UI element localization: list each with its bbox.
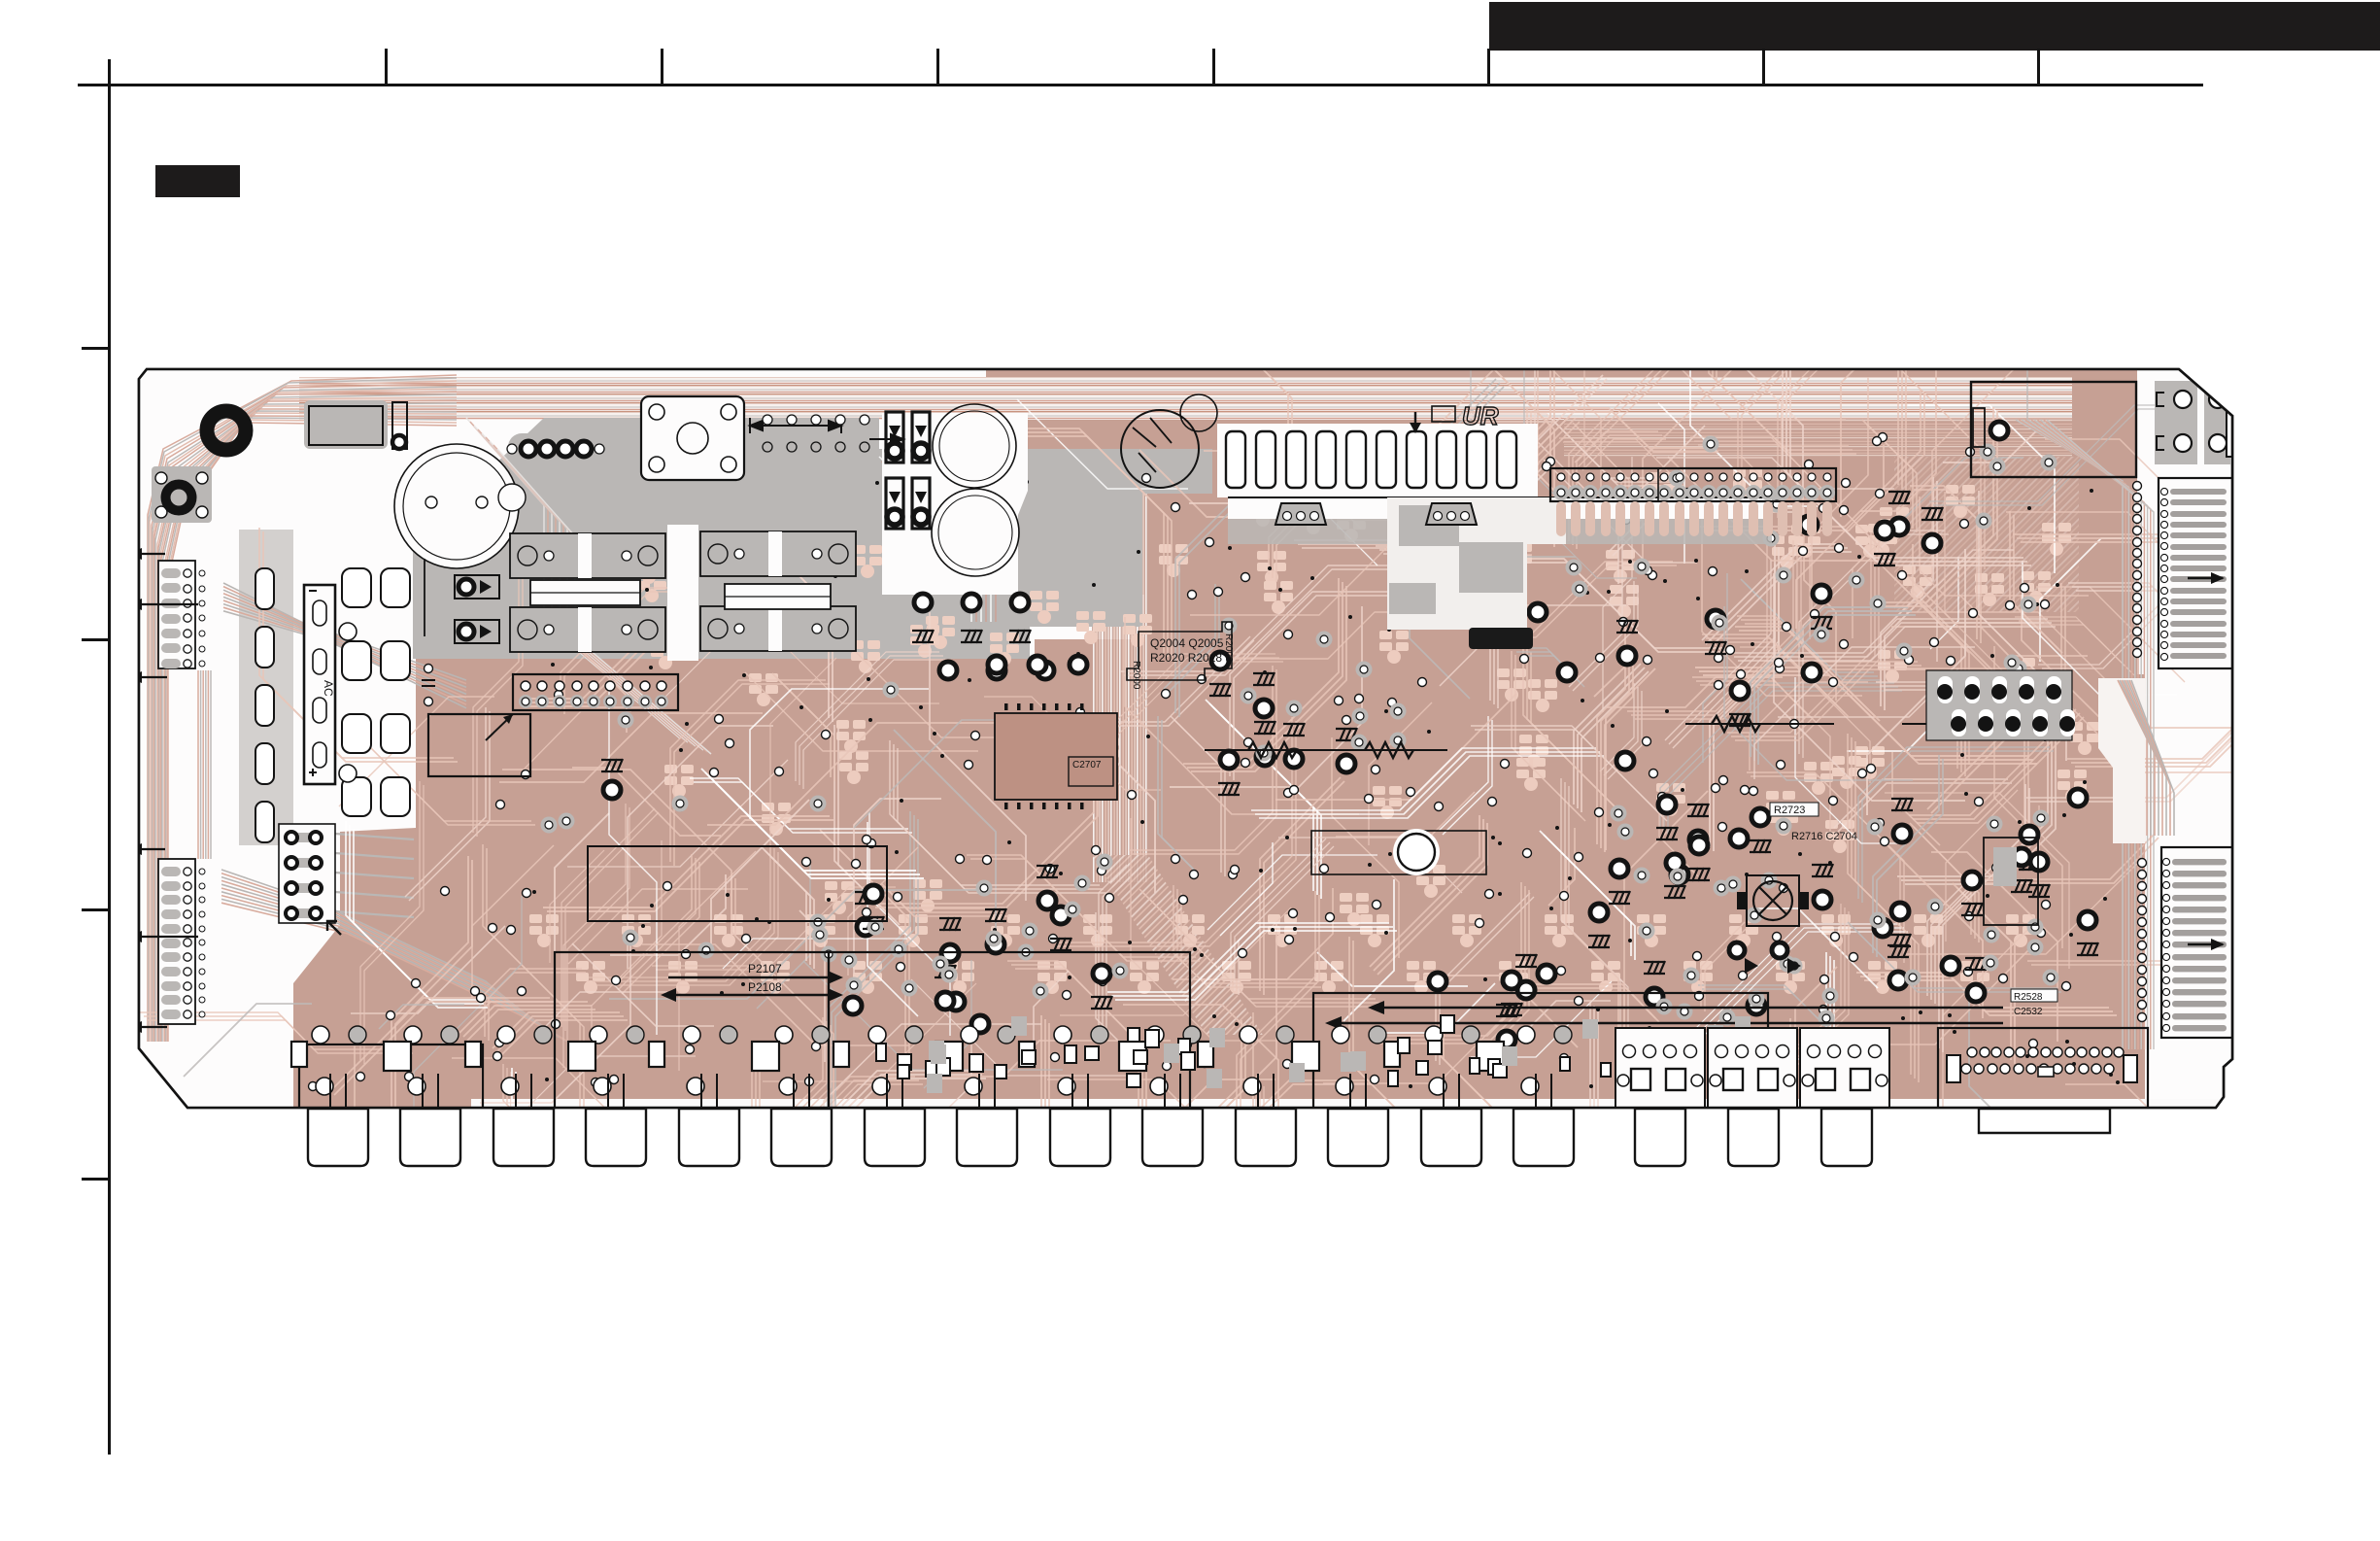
- card edge connector CN9 upper: [2159, 478, 2236, 668]
- inter-connector bundle: [198, 670, 211, 859]
- shield comb frame: [1217, 424, 1538, 497]
- top trace band: [299, 377, 2072, 420]
- relay gap white channel: [667, 525, 698, 661]
- component pad clusters: [541, 422, 2099, 1048]
- board outline: [139, 369, 2232, 1108]
- svg-text:R2723: R2723: [1774, 805, 1805, 816]
- RCA jack tabs: [308, 1109, 2110, 1166]
- inductor frame L1: [530, 580, 640, 605]
- connector group frame B1: [299, 1044, 483, 1113]
- gray slot column left: [239, 530, 293, 845]
- card edge connector CN10 lower: [2161, 847, 2236, 1038]
- title block bar top right: [1489, 2, 2380, 51]
- component shadow region (gray mass): [413, 418, 1212, 659]
- trace patch right-center: [1894, 457, 2079, 612]
- dimension arrows: [750, 418, 903, 444]
- connector CN2 (left lower): [158, 859, 195, 1024]
- capacitor C2103 pads: [425, 665, 433, 673]
- trace river diagonal: [1092, 855, 1263, 1035]
- jack stems: [330, 1074, 1551, 1112]
- capacitor C2707 frame: [1069, 757, 1113, 786]
- shield lower right patch: [1387, 497, 1566, 630]
- SMD pad scatter in connector groups: [876, 1015, 1751, 1093]
- transistor row Q cluster center: [912, 594, 1054, 679]
- svg-text:R2528: R2528: [2014, 992, 2043, 1003]
- AC pin slots right column: [342, 568, 371, 607]
- edge arrows: [128, 553, 165, 555]
- svg-text:R2020 R2018: R2020 R2018: [1150, 651, 1222, 665]
- transformer T1 body: [304, 400, 388, 449]
- resistor R2721: [1685, 723, 1834, 725]
- IC U2002 frame: [1311, 831, 1486, 874]
- board outline restroke: [139, 369, 2232, 1108]
- left connector fanout: [221, 583, 577, 1046]
- SMD footprint rows: [529, 468, 2099, 994]
- svg-text:R2008: R2008: [1223, 634, 1234, 663]
- top ruler line: [78, 84, 2203, 86]
- label R2723: [1770, 803, 1819, 816]
- AC inlet slots left column: [255, 568, 274, 609]
- ruler ticks top: [385, 49, 2040, 86]
- outline component frame top right: [1971, 382, 2136, 477]
- top trace band fades on copper: [1564, 418, 2072, 457]
- connector group frame B2: [555, 952, 829, 1113]
- resistor R2016: [1205, 749, 1447, 751]
- connector CN1 (left upper): [158, 561, 195, 668]
- IC U2001: [995, 713, 1117, 800]
- capacitor C2: [933, 404, 1016, 488]
- trimmer VR2701: [1747, 875, 1799, 926]
- diode pair D2701: [1729, 942, 1745, 958]
- IR window arrow: [1414, 412, 1416, 429]
- label R2528: [2011, 989, 2057, 1002]
- screw boss H2: [152, 466, 212, 523]
- corner trace bundle: [148, 375, 457, 1042]
- terminal block J1: [508, 433, 611, 464]
- header P2101: [513, 674, 678, 710]
- revision block top left: [155, 165, 240, 197]
- copper trace texture: [140, 110, 2324, 1318]
- via field: [309, 433, 2071, 1091]
- capacitor C3: [932, 489, 1019, 576]
- jumper pads row: [763, 415, 869, 452]
- svg-text:UR: UR: [1462, 401, 1499, 430]
- svg-text:C2707: C2707: [1072, 760, 1102, 770]
- ruler ticks left: [82, 347, 109, 1181]
- power block pads: [1926, 670, 2072, 740]
- regulator tab Q2010: [1275, 503, 1326, 525]
- capacitor C1 (large electrolytic): [394, 444, 519, 568]
- copper ground pour: [139, 369, 2232, 1108]
- diode D1: [392, 402, 407, 449]
- shield lower band: [1228, 497, 1772, 519]
- transistor Q2103: [603, 781, 621, 799]
- left ruler line: [108, 59, 111, 1455]
- relay RY1 frame: [641, 396, 744, 480]
- label frame Q2004: [1127, 622, 1232, 680]
- SMD resistor row: [291, 1042, 1504, 1071]
- relay block K1: [510, 533, 665, 578]
- pin header P2301: [1550, 468, 1836, 501]
- svg-text:Q2004 Q2005: Q2004 Q2005: [1150, 636, 1224, 650]
- via column right: [2133, 482, 2147, 1022]
- traces over gray mass: [466, 418, 996, 754]
- inductor frame L2: [725, 584, 831, 609]
- transistor cluster above IC: [988, 656, 1087, 673]
- cap zone white patch: [882, 413, 1028, 595]
- diode pair D3: [455, 575, 499, 599]
- svg-text:C2532: C2532: [2014, 1007, 2043, 1017]
- resistor R2722: [1902, 723, 2028, 725]
- corner connector CN8: [2155, 381, 2230, 464]
- connector CN3 small: [279, 824, 335, 923]
- right edge white zone upper: [2137, 369, 2232, 674]
- AC inlet main body: [304, 585, 335, 784]
- CN3 fanout bundle: [335, 834, 414, 917]
- right edge white zone lower: [2145, 674, 2234, 1110]
- right edge vertical bundle: [2016, 420, 2154, 1049]
- right edge white wedge: [2098, 678, 2145, 843]
- svg-text:R2716 C2704: R2716 C2704: [1791, 831, 1857, 842]
- svg-text:P2108: P2108: [748, 980, 782, 994]
- edge stub connector: [2227, 396, 2248, 457]
- component silkscreen zone top-left (light): [139, 367, 1144, 1110]
- capacitor C2705 body: [1469, 628, 1533, 649]
- svg-text:R2000: R2000: [1131, 661, 1141, 690]
- connector group frame B3: [829, 952, 1190, 1113]
- solder dot field: [532, 480, 2120, 1088]
- jack pin pads: [312, 1026, 1572, 1095]
- transformer T2 circle: [1121, 410, 1199, 488]
- svg-text:P2107: P2107: [748, 962, 782, 976]
- transformer core frame: [428, 714, 530, 776]
- bottom white strip: [471, 1099, 2220, 1109]
- trace river vertical: [1092, 455, 1148, 882]
- P2107 P2108 arrows: [668, 976, 835, 978]
- B4 harness arrows: [1376, 1007, 2003, 1010]
- diode cluster D2001: [886, 412, 930, 529]
- hole in board: [1393, 829, 1440, 875]
- optical connector OPT1: [1615, 1028, 1705, 1111]
- long component frame lower-left: [588, 846, 887, 921]
- small IC U2701: [1984, 838, 2038, 925]
- connector group frame B4: [1313, 993, 1768, 1113]
- svg-text:AC: AC: [322, 680, 335, 697]
- wide connector CN12: [1938, 1028, 2148, 1112]
- right mid gray staircase: [2118, 680, 2174, 836]
- mounting hole H1: [207, 411, 246, 450]
